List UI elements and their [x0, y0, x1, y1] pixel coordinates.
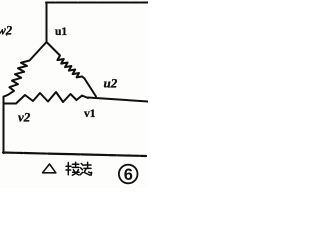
wire top rail [46, 2, 148, 4]
wire bottom rail [3, 153, 146, 157]
winding U (left branch, node u1 to node w1/v2) [4, 42, 47, 97]
caption text jie (connect) [66, 162, 79, 175]
svg-text:v2: v2 [18, 110, 31, 125]
svg-text:v1: v1 [84, 108, 96, 120]
node bottom-left vertex wire down to bottom rail [3, 97, 5, 154]
winding W (right branch, u1 to u2) [47, 42, 97, 97]
ink speck under label w2 [6, 34, 8, 36]
wire to right edge from bottom-right vertex [88, 98, 148, 102]
winding V (bottom, v2 to v1) [4, 92, 88, 104]
wire vertical drop to node u1 [46, 3, 48, 43]
figure number circled 6 [119, 165, 138, 184]
delta symbol in caption [43, 164, 56, 173]
svg-text:u1: u1 [55, 26, 67, 38]
svg-text:u2: u2 [104, 76, 118, 91]
caption text fa (method) [80, 162, 91, 175]
svg-text:6: 6 [124, 166, 133, 184]
